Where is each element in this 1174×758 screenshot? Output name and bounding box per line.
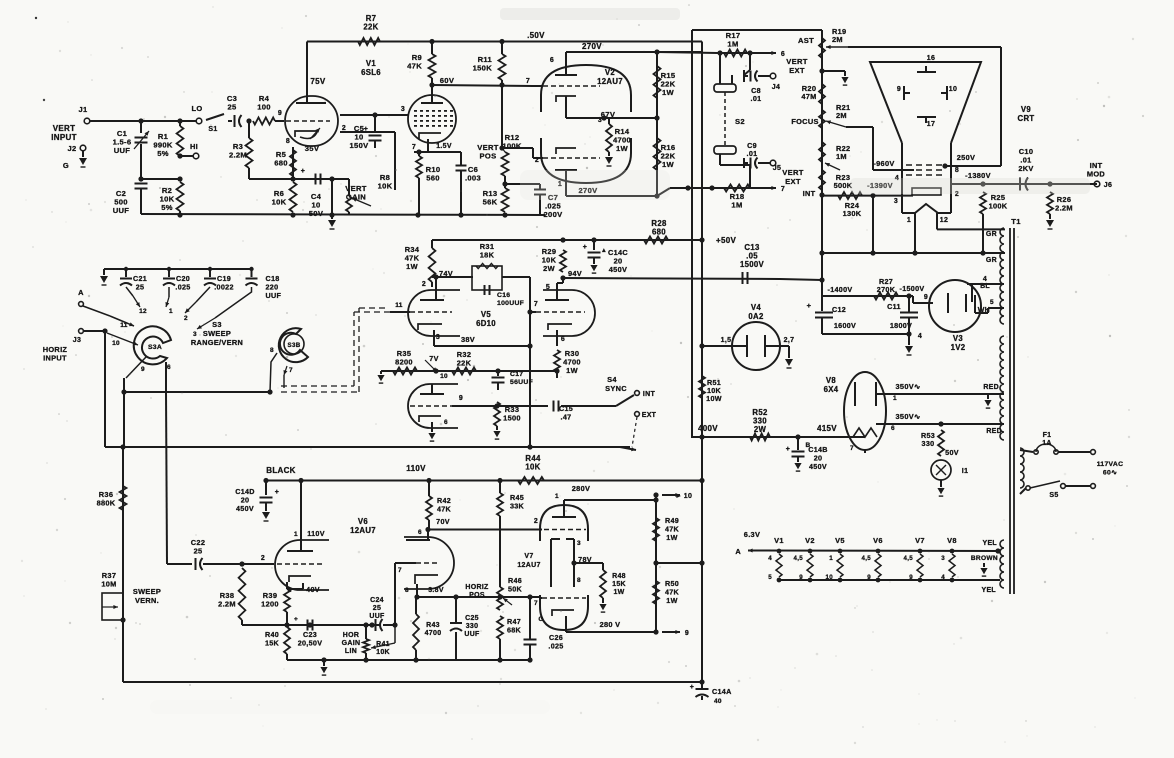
svg-text:150K: 150K: [473, 64, 493, 73]
svg-text:10K: 10K: [378, 182, 393, 191]
svg-text:3: 3: [894, 198, 898, 205]
svg-text:RED: RED: [983, 384, 999, 391]
svg-text:415V: 415V: [817, 424, 837, 433]
svg-text:12AU7: 12AU7: [517, 562, 540, 569]
svg-text:J3: J3: [73, 337, 81, 344]
svg-text:2: 2: [535, 157, 539, 164]
svg-text:11: 11: [120, 322, 128, 329]
svg-text:6.3V: 6.3V: [744, 530, 760, 539]
svg-text:350V∿: 350V∿: [896, 412, 921, 421]
svg-text:500K: 500K: [834, 181, 853, 190]
svg-text:68K: 68K: [507, 626, 522, 635]
svg-text:1: 1: [169, 308, 173, 315]
svg-text:.47: .47: [561, 413, 572, 422]
svg-text:1M: 1M: [836, 152, 847, 161]
svg-text:250V: 250V: [957, 153, 975, 162]
svg-text:1200: 1200: [261, 600, 279, 609]
svg-text:C25: C25: [465, 615, 479, 622]
svg-text:9: 9: [278, 110, 282, 117]
svg-text:200V: 200V: [544, 210, 564, 219]
svg-text:-1400V: -1400V: [828, 285, 853, 294]
svg-text:8: 8: [955, 167, 959, 174]
svg-text:10: 10: [684, 493, 692, 500]
svg-text:1W: 1W: [616, 144, 629, 153]
svg-text:1: 1: [893, 395, 897, 402]
svg-text:V8: V8: [826, 376, 837, 385]
svg-text:AST: AST: [798, 36, 814, 45]
svg-text:10: 10: [112, 340, 120, 347]
svg-text:9: 9: [924, 294, 928, 301]
svg-text:1: 1: [907, 217, 911, 224]
svg-text:9: 9: [897, 86, 901, 93]
svg-text:EXT: EXT: [785, 177, 801, 186]
svg-text:100UUF: 100UUF: [497, 300, 524, 307]
svg-text:110V: 110V: [307, 529, 325, 538]
svg-text:10K: 10K: [525, 463, 540, 472]
svg-text:0A2: 0A2: [748, 312, 764, 321]
svg-text:16: 16: [927, 55, 935, 62]
svg-text:2W: 2W: [754, 425, 767, 434]
svg-text:7: 7: [412, 144, 416, 151]
svg-text:V6: V6: [358, 517, 369, 526]
svg-text:V9: V9: [1021, 105, 1032, 114]
svg-text:2W: 2W: [543, 264, 555, 273]
svg-text:50V: 50V: [945, 448, 959, 457]
svg-text:S3: S3: [212, 320, 222, 329]
svg-text:V1: V1: [366, 59, 377, 68]
svg-text:56UUF: 56UUF: [510, 379, 533, 386]
svg-text:18K: 18K: [480, 251, 495, 260]
svg-text:8: 8: [270, 347, 274, 354]
svg-text:4,5: 4,5: [861, 555, 871, 562]
svg-text:C16: C16: [497, 292, 510, 299]
svg-text:40V: 40V: [306, 585, 320, 594]
svg-text:1.5V: 1.5V: [436, 143, 452, 150]
svg-text:1600V: 1600V: [834, 321, 856, 330]
svg-text:+: +: [583, 244, 587, 251]
svg-text:9: 9: [141, 366, 145, 373]
svg-text:BROWN: BROWN: [971, 555, 998, 562]
svg-text:LO: LO: [191, 104, 202, 113]
svg-text:280V: 280V: [572, 484, 590, 493]
svg-text:25: 25: [136, 283, 145, 292]
svg-text:-1500V: -1500V: [900, 284, 925, 293]
svg-text:B: B: [806, 442, 811, 449]
svg-text:4: 4: [941, 574, 945, 581]
svg-text:10: 10: [826, 574, 834, 581]
svg-text:VERN.: VERN.: [135, 596, 159, 605]
svg-text:V7: V7: [524, 553, 533, 560]
svg-text:6: 6: [444, 419, 448, 426]
svg-text:R43: R43: [426, 622, 440, 629]
svg-text:V5: V5: [481, 310, 492, 319]
svg-text:2: 2: [261, 555, 265, 562]
svg-text:V1: V1: [774, 536, 784, 545]
svg-text:47K: 47K: [407, 62, 422, 71]
svg-text:450V: 450V: [809, 462, 827, 471]
svg-text:2KV: 2KV: [1018, 164, 1033, 173]
svg-text:117VAC: 117VAC: [1097, 461, 1124, 468]
svg-text:40: 40: [714, 698, 722, 705]
svg-text:S5: S5: [1049, 492, 1058, 499]
svg-text:880K: 880K: [97, 499, 116, 508]
svg-text:50K: 50K: [508, 585, 523, 594]
svg-text:15K: 15K: [265, 639, 280, 648]
svg-text:+: +: [301, 168, 305, 175]
svg-text:+: +: [294, 616, 298, 623]
svg-text:SWEEP: SWEEP: [133, 587, 161, 596]
svg-text:1W: 1W: [666, 596, 677, 605]
svg-text:9: 9: [909, 574, 913, 581]
svg-text:POS: POS: [480, 152, 497, 161]
svg-text:I1: I1: [962, 466, 969, 475]
svg-text:J5: J5: [773, 165, 781, 172]
svg-text:7: 7: [534, 301, 538, 308]
svg-text:1: 1: [555, 493, 559, 500]
svg-text:1,5: 1,5: [721, 337, 732, 344]
svg-text:J6: J6: [1104, 182, 1112, 189]
svg-text:130K: 130K: [843, 209, 862, 218]
svg-text:270V: 270V: [582, 42, 602, 51]
svg-text:7: 7: [850, 445, 854, 452]
svg-text:.025: .025: [548, 642, 563, 651]
svg-text:S3A: S3A: [148, 344, 162, 351]
svg-text:70V: 70V: [436, 517, 450, 526]
svg-text:2M: 2M: [832, 35, 843, 44]
svg-text:9: 9: [799, 574, 803, 581]
svg-text:MOD: MOD: [1087, 170, 1106, 179]
svg-text:38V: 38V: [461, 335, 475, 344]
svg-text:350V∿: 350V∿: [896, 382, 921, 391]
svg-text:3: 3: [436, 334, 440, 341]
svg-text:1M: 1M: [727, 40, 738, 49]
svg-text:G: G: [63, 161, 69, 170]
svg-text:50V: 50V: [309, 209, 324, 218]
svg-text:LIN: LIN: [345, 648, 357, 655]
svg-text:5: 5: [546, 284, 550, 291]
svg-text:450V: 450V: [609, 265, 627, 274]
svg-text:+: +: [807, 301, 812, 310]
svg-text:.50V: .50V: [527, 31, 545, 40]
svg-text:J2: J2: [68, 144, 77, 153]
svg-text:8: 8: [286, 138, 290, 145]
svg-text:SYNC: SYNC: [605, 384, 627, 393]
svg-text:+: +: [786, 446, 790, 453]
svg-text:HORIZ: HORIZ: [465, 584, 489, 591]
svg-text:C12: C12: [832, 305, 846, 314]
svg-text:6SL6: 6SL6: [361, 68, 381, 77]
svg-text:EXT: EXT: [642, 412, 657, 419]
svg-text:25: 25: [373, 605, 381, 612]
svg-text:1W: 1W: [566, 366, 578, 375]
svg-text:S1: S1: [208, 126, 217, 133]
svg-text:S3B: S3B: [288, 342, 301, 349]
svg-text:V4: V4: [751, 303, 762, 312]
svg-text:+: +: [690, 684, 694, 691]
svg-text:2,7: 2,7: [784, 337, 795, 344]
svg-text:400V: 400V: [698, 424, 718, 433]
svg-text:1500V: 1500V: [740, 260, 765, 269]
svg-text:UUF: UUF: [114, 146, 131, 155]
svg-text:75V: 75V: [310, 77, 325, 86]
svg-text:2: 2: [342, 125, 346, 132]
svg-text:7: 7: [534, 600, 538, 607]
svg-text:1: 1: [294, 531, 298, 538]
svg-text:J4: J4: [772, 84, 780, 91]
svg-text:10: 10: [949, 86, 957, 93]
svg-text:4: 4: [768, 555, 772, 562]
svg-text:5: 5: [990, 299, 994, 306]
svg-text:20,50V: 20,50V: [298, 639, 323, 648]
svg-text:6: 6: [891, 425, 895, 432]
svg-text:12: 12: [139, 308, 147, 315]
svg-text:HOR: HOR: [343, 632, 359, 639]
svg-text:12AU7: 12AU7: [350, 526, 376, 535]
svg-text:25: 25: [227, 103, 237, 112]
svg-text:47M: 47M: [801, 92, 816, 101]
svg-text:680: 680: [652, 228, 666, 237]
svg-text:10K: 10K: [376, 649, 390, 656]
svg-text:15K: 15K: [612, 581, 626, 588]
svg-text:INPUT: INPUT: [43, 354, 67, 363]
svg-text:60V: 60V: [440, 76, 455, 85]
svg-text:GR: GR: [986, 231, 997, 238]
svg-text:UUF: UUF: [464, 631, 480, 638]
svg-text:6: 6: [418, 529, 422, 536]
svg-text:8: 8: [405, 587, 409, 594]
svg-text:EXT: EXT: [789, 66, 805, 75]
svg-text:R48: R48: [612, 573, 626, 580]
svg-text:330: 330: [922, 439, 935, 448]
svg-text:2.2M: 2.2M: [1055, 204, 1073, 213]
svg-text:12AU7: 12AU7: [597, 77, 623, 86]
svg-text:100K: 100K: [502, 142, 522, 151]
svg-text:2.2M: 2.2M: [218, 600, 236, 609]
svg-text:6D10: 6D10: [476, 319, 496, 328]
svg-text:S4: S4: [607, 375, 617, 384]
svg-text:8200: 8200: [395, 358, 413, 367]
svg-text:1W: 1W: [613, 589, 624, 596]
svg-text:6X4: 6X4: [824, 385, 839, 394]
svg-text:7V: 7V: [429, 354, 438, 363]
svg-text:3: 3: [401, 106, 405, 113]
svg-text:150V: 150V: [350, 141, 370, 150]
svg-text:25: 25: [194, 547, 203, 556]
svg-text:+: +: [275, 489, 279, 496]
svg-text:3: 3: [577, 540, 581, 547]
svg-text:2: 2: [534, 518, 538, 525]
svg-text:V7: V7: [915, 536, 925, 545]
svg-text:6: 6: [550, 57, 554, 64]
svg-text:2.2M: 2.2M: [229, 151, 247, 160]
svg-text:5: 5: [768, 574, 772, 581]
svg-text:UUF: UUF: [113, 206, 130, 215]
svg-text:7: 7: [398, 567, 402, 574]
svg-text:V8: V8: [947, 536, 957, 545]
svg-text:.0022: .0022: [214, 283, 234, 292]
svg-text:6: 6: [781, 51, 785, 58]
svg-text:UUF: UUF: [266, 291, 282, 300]
svg-text:7: 7: [289, 367, 293, 374]
svg-text:-960V: -960V: [873, 159, 894, 168]
svg-text:VERT: VERT: [782, 168, 804, 177]
svg-text:6: 6: [167, 364, 171, 371]
svg-text:GAIN: GAIN: [342, 640, 361, 647]
svg-text:1W: 1W: [666, 533, 677, 542]
svg-text:10M: 10M: [101, 580, 116, 589]
svg-text:T1: T1: [1011, 217, 1021, 226]
svg-text:V2: V2: [605, 68, 616, 77]
svg-text:1W: 1W: [406, 262, 418, 271]
svg-text:V5: V5: [835, 536, 845, 545]
svg-text:BLACK: BLACK: [266, 466, 296, 475]
svg-text:10: 10: [440, 373, 448, 380]
svg-text:2M: 2M: [836, 111, 847, 120]
svg-text:.01: .01: [751, 94, 762, 103]
svg-text:450V: 450V: [236, 504, 254, 513]
svg-text:680: 680: [274, 159, 288, 168]
svg-text:56K: 56K: [483, 198, 498, 207]
svg-text:+50V: +50V: [716, 236, 736, 245]
svg-text:C24: C24: [370, 597, 384, 604]
svg-text:100K: 100K: [989, 202, 1008, 211]
svg-text:V2: V2: [805, 536, 815, 545]
svg-text:22K: 22K: [457, 359, 472, 368]
svg-text:VERT: VERT: [53, 124, 76, 133]
svg-text:9: 9: [459, 395, 463, 402]
svg-text:12: 12: [940, 217, 948, 224]
svg-text:V6: V6: [873, 536, 883, 545]
svg-text:RED: RED: [986, 428, 1002, 435]
svg-text:INT: INT: [803, 189, 816, 198]
svg-text:.01: .01: [747, 149, 758, 158]
svg-text:1W: 1W: [662, 88, 675, 97]
svg-text:4700: 4700: [425, 630, 442, 637]
svg-text:17: 17: [927, 121, 935, 128]
svg-text:7: 7: [781, 186, 785, 193]
svg-text:C17: C17: [510, 371, 523, 378]
svg-text:G: G: [538, 616, 543, 623]
svg-text:.003: .003: [465, 174, 481, 183]
svg-text:280 V: 280 V: [600, 620, 621, 629]
svg-text:60∿: 60∿: [1103, 470, 1117, 477]
svg-text:C11: C11: [887, 302, 901, 311]
svg-text:270K: 270K: [877, 285, 896, 294]
svg-text:4,5: 4,5: [903, 555, 913, 562]
svg-text:YEL: YEL: [981, 587, 996, 594]
svg-text:10K: 10K: [272, 198, 287, 207]
svg-text:1500: 1500: [503, 414, 521, 423]
svg-text:33K: 33K: [510, 502, 525, 511]
svg-text:3.8V: 3.8V: [428, 587, 444, 594]
svg-text:22K: 22K: [363, 23, 378, 32]
svg-text:R41: R41: [376, 641, 390, 648]
svg-text:2: 2: [184, 315, 188, 322]
svg-text:F1: F1: [1043, 432, 1052, 439]
svg-text:3: 3: [193, 331, 197, 338]
svg-text:6: 6: [561, 336, 565, 343]
svg-text:UUF: UUF: [369, 613, 385, 620]
svg-text:8: 8: [577, 577, 581, 584]
svg-text:YEL: YEL: [982, 540, 997, 547]
svg-text:5%: 5%: [161, 203, 173, 212]
svg-text:SWEEP: SWEEP: [203, 329, 231, 338]
svg-text:V3: V3: [953, 334, 964, 343]
svg-text:3: 3: [941, 555, 945, 562]
svg-text:GR: GR: [986, 257, 997, 264]
svg-text:J1: J1: [79, 105, 88, 114]
svg-text:9: 9: [867, 574, 871, 581]
svg-text:CRT: CRT: [1018, 114, 1035, 123]
svg-text:4: 4: [983, 276, 987, 283]
svg-text:S2: S2: [735, 117, 745, 126]
svg-text:INT: INT: [643, 391, 656, 398]
svg-text:7: 7: [526, 78, 530, 85]
svg-text:VERT: VERT: [786, 57, 808, 66]
svg-text:HI: HI: [190, 142, 198, 151]
svg-text:4,5: 4,5: [793, 555, 803, 562]
svg-text:.025: .025: [175, 283, 190, 292]
svg-text:4: 4: [918, 333, 922, 340]
svg-text:C14A: C14A: [712, 687, 732, 696]
svg-text:RANGE/VERN: RANGE/VERN: [191, 338, 243, 347]
svg-text:94V: 94V: [568, 269, 582, 278]
svg-text:2: 2: [422, 281, 426, 288]
svg-text:1: 1: [829, 555, 833, 562]
svg-text:110V: 110V: [406, 464, 426, 473]
svg-text:1V2: 1V2: [951, 343, 966, 352]
svg-text:INPUT: INPUT: [51, 133, 77, 142]
svg-text:1A: 1A: [1042, 440, 1052, 447]
svg-text:A: A: [735, 547, 741, 556]
svg-text:1M: 1M: [731, 201, 742, 210]
svg-text:10W: 10W: [706, 394, 722, 403]
svg-text:47K: 47K: [437, 505, 452, 514]
svg-text:100: 100: [257, 103, 271, 112]
svg-text:11: 11: [395, 302, 403, 309]
svg-text:FOCUS: FOCUS: [791, 117, 818, 126]
svg-text:9: 9: [685, 630, 689, 637]
svg-text:A: A: [78, 288, 84, 297]
svg-text:5%: 5%: [157, 149, 169, 158]
svg-text:560: 560: [426, 174, 440, 183]
svg-text:1W: 1W: [662, 160, 675, 169]
svg-text:POS: POS: [469, 592, 485, 599]
svg-text:▲: ▲: [601, 248, 607, 254]
svg-text:330: 330: [466, 623, 479, 630]
